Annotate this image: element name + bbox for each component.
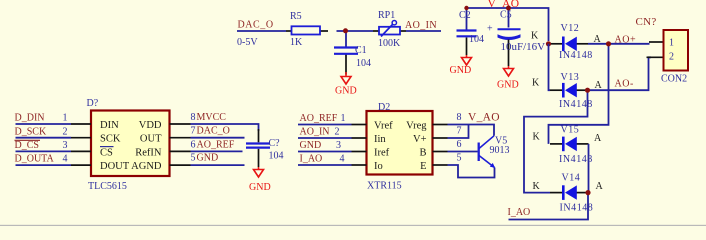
svg-text:CON2: CON2 <box>661 74 687 85</box>
svg-text:VDD: VDD <box>139 120 162 131</box>
svg-text:AO_REF: AO_REF <box>300 113 338 124</box>
svg-text:D_DIN: D_DIN <box>15 113 45 124</box>
svg-text:3: 3 <box>63 140 68 151</box>
svg-text:AO-: AO- <box>615 79 634 90</box>
svg-text:+: + <box>487 24 493 35</box>
svg-text:B: B <box>419 148 426 159</box>
svg-text:104: 104 <box>269 151 284 162</box>
svg-text:IN4148: IN4148 <box>559 50 593 61</box>
svg-text:D2: D2 <box>378 102 390 113</box>
svg-text:D_SCK: D_SCK <box>15 126 47 137</box>
svg-text:A: A <box>594 133 602 144</box>
svg-text:C1: C1 <box>355 45 367 56</box>
svg-text:GND: GND <box>450 65 472 76</box>
svg-text:DAC_O: DAC_O <box>197 126 230 137</box>
svg-text:MVCC: MVCC <box>197 112 227 123</box>
svg-text:10uF/16V: 10uF/16V <box>501 41 546 53</box>
svg-text:IN4148: IN4148 <box>559 99 593 110</box>
svg-text:0-5V: 0-5V <box>237 37 258 48</box>
svg-text:K: K <box>533 132 541 143</box>
svg-text:C2: C2 <box>459 10 471 21</box>
svg-text:XTR115: XTR115 <box>367 181 402 192</box>
svg-text:K: K <box>533 181 541 192</box>
svg-text:Iin: Iin <box>374 134 386 145</box>
svg-text:RefIN: RefIN <box>135 147 162 158</box>
svg-text:GND: GND <box>197 153 219 164</box>
svg-text:Vref: Vref <box>374 121 393 132</box>
svg-text:AO_REF: AO_REF <box>197 139 235 150</box>
svg-text:IN4148: IN4148 <box>560 203 594 214</box>
svg-text:2: 2 <box>63 126 68 137</box>
svg-text:E: E <box>420 161 426 172</box>
svg-text:D_OUTA: D_OUTA <box>15 154 55 165</box>
svg-text:V13: V13 <box>561 72 580 83</box>
svg-text:DIN: DIN <box>100 120 119 131</box>
svg-text:CN?: CN? <box>636 16 657 28</box>
svg-text:A: A <box>596 181 604 192</box>
svg-text:104: 104 <box>356 58 371 69</box>
svg-text:104: 104 <box>469 34 484 45</box>
svg-text:GND: GND <box>497 80 519 91</box>
svg-text:5: 5 <box>191 153 196 164</box>
svg-text:AO_IN: AO_IN <box>300 126 330 137</box>
svg-text:K: K <box>532 78 540 89</box>
svg-text:D_CS: D_CS <box>15 140 39 151</box>
svg-text:4: 4 <box>340 153 345 164</box>
svg-text:1K: 1K <box>290 37 303 48</box>
svg-text:6: 6 <box>457 139 462 150</box>
svg-text:R5: R5 <box>290 11 302 22</box>
svg-text:1: 1 <box>669 38 674 49</box>
svg-text:V_AO: V_AO <box>468 112 500 124</box>
svg-text:SCK: SCK <box>100 134 121 145</box>
svg-text:2: 2 <box>669 51 674 62</box>
svg-text:9013: 9013 <box>490 145 510 156</box>
svg-text:AGND: AGND <box>131 161 162 172</box>
svg-text:TLC5615: TLC5615 <box>88 181 127 192</box>
svg-text:Io: Io <box>374 161 383 172</box>
svg-text:I_AO: I_AO <box>300 153 323 164</box>
svg-text:1: 1 <box>341 113 346 124</box>
svg-text:CS: CS <box>100 147 113 158</box>
svg-text:GND: GND <box>300 140 322 151</box>
svg-text:C?: C? <box>269 138 281 149</box>
svg-text:DOUT: DOUT <box>100 161 130 172</box>
svg-text:3: 3 <box>336 140 341 151</box>
svg-text:D?: D? <box>87 98 99 109</box>
svg-text:4: 4 <box>63 154 68 165</box>
svg-text:8: 8 <box>457 112 462 123</box>
svg-text:7: 7 <box>457 126 462 137</box>
svg-text:V14: V14 <box>562 173 581 184</box>
svg-text:I_AO: I_AO <box>508 207 531 218</box>
svg-text:8: 8 <box>191 112 196 123</box>
svg-text:AO_IN: AO_IN <box>405 20 437 31</box>
svg-text:1: 1 <box>63 113 68 124</box>
svg-text:V15: V15 <box>561 125 580 136</box>
svg-text:OUT: OUT <box>140 134 162 145</box>
svg-text:RP1: RP1 <box>378 10 395 21</box>
svg-text:V12: V12 <box>561 23 580 34</box>
svg-text:2: 2 <box>335 126 340 137</box>
svg-text:100K: 100K <box>378 38 401 49</box>
svg-text:Iref: Iref <box>374 148 390 159</box>
svg-text:DAC_O: DAC_O <box>238 20 274 31</box>
svg-text:7: 7 <box>191 126 196 137</box>
svg-text:6: 6 <box>191 139 196 150</box>
svg-text:K: K <box>531 31 539 42</box>
svg-text:GND: GND <box>249 182 271 193</box>
svg-text:A: A <box>595 80 603 91</box>
svg-text:V+: V+ <box>413 134 427 145</box>
svg-text:IN4148: IN4148 <box>559 154 593 165</box>
svg-text:A: A <box>594 34 602 45</box>
svg-text:GND: GND <box>335 86 357 97</box>
svg-text:C5: C5 <box>500 10 512 21</box>
svg-text:Vreg: Vreg <box>406 121 427 132</box>
svg-text:AO+: AO+ <box>615 35 637 46</box>
svg-text:5: 5 <box>457 153 462 164</box>
